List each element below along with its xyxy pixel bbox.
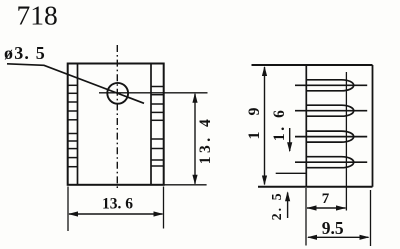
svg-text:1 9: 1 9 (246, 102, 263, 140)
svg-text:ø3. 5: ø3. 5 (4, 43, 46, 63)
svg-text:1. 6: 1. 6 (271, 107, 288, 141)
svg-text:7: 7 (322, 191, 330, 207)
svg-text:9.5: 9.5 (322, 218, 344, 238)
svg-text:13. 6: 13. 6 (102, 196, 133, 213)
svg-text:2. 5: 2. 5 (270, 191, 285, 220)
svg-text:718: 718 (17, 0, 58, 30)
svg-text:13. 4: 13. 4 (197, 116, 214, 165)
